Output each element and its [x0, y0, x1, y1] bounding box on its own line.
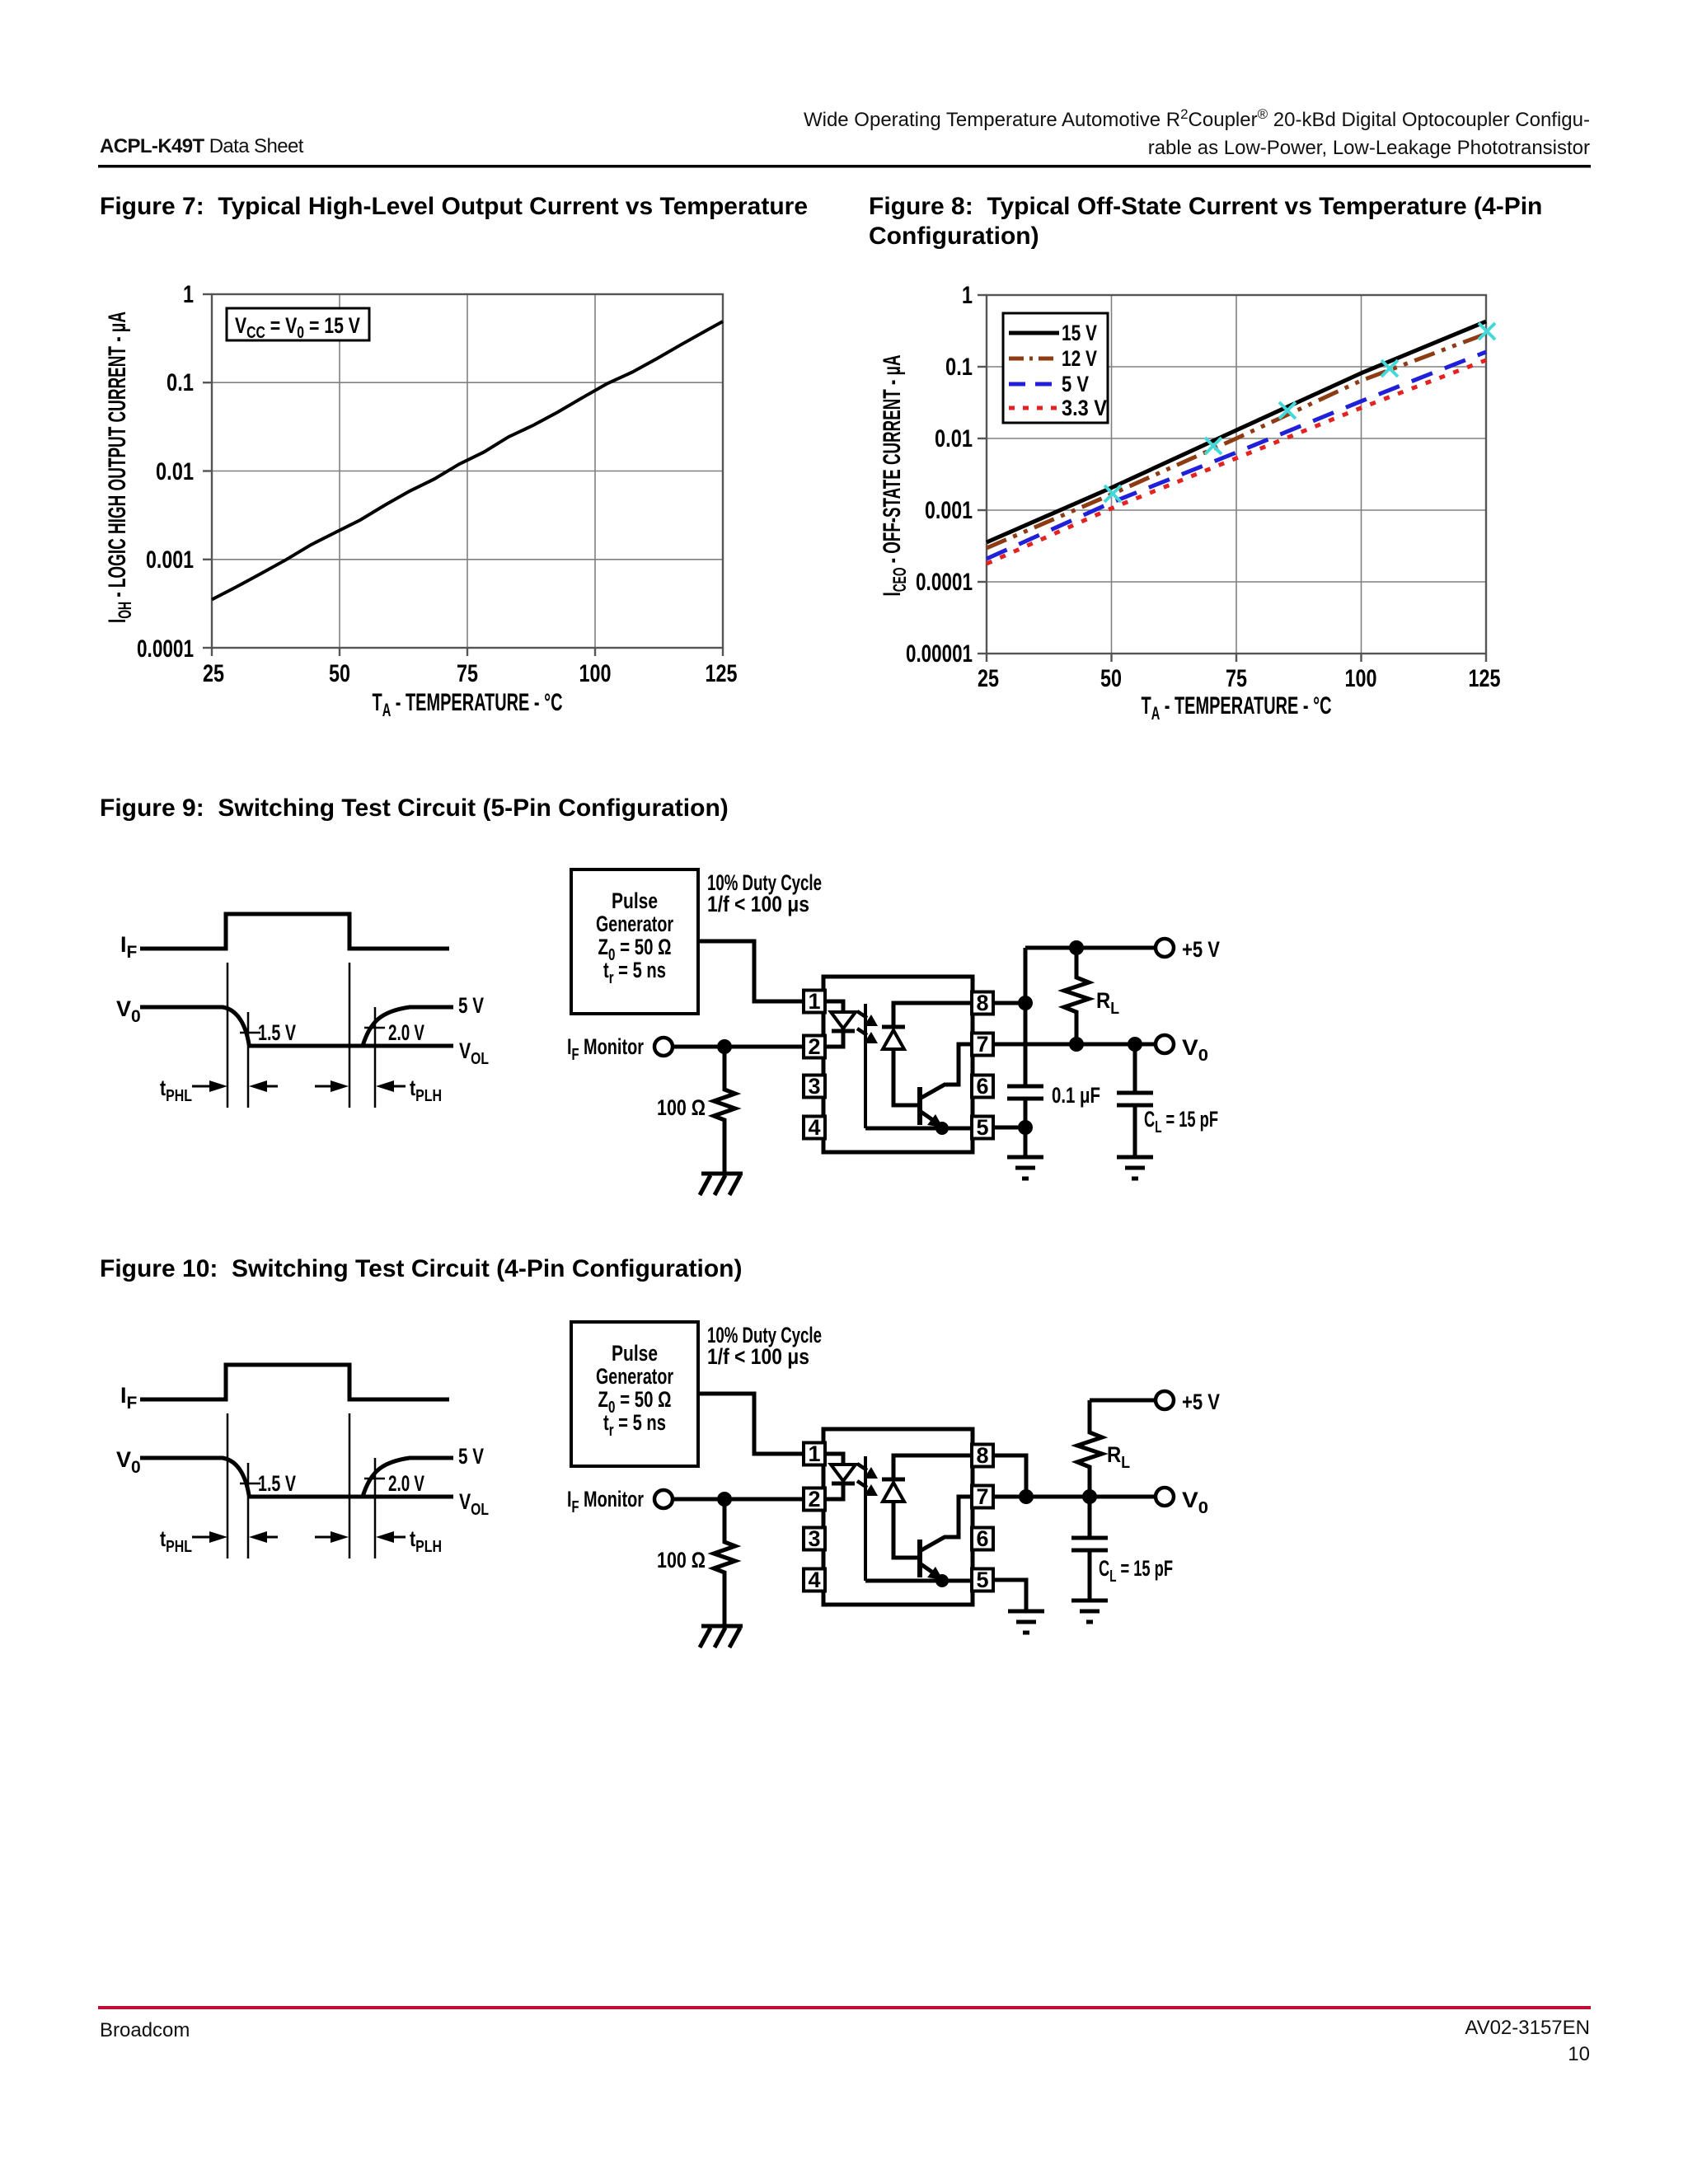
svg-text:12 V: 12 V [1062, 346, 1097, 371]
svg-text:50: 50 [1100, 665, 1122, 692]
timing reference line at 1.5V crossing [247, 1463, 250, 1558]
svg-text:50: 50 [329, 660, 350, 687]
wire pin 1 to LED anode [825, 1454, 843, 1465]
terminal IF Monitor [567, 1487, 673, 1516]
FIG9 [116, 869, 1220, 1195]
ground (hatched) [700, 1626, 743, 1647]
tPLH label [410, 1526, 442, 1556]
2.0 V threshold tick and label [364, 1471, 424, 1496]
svg-text:Generator: Generator [596, 912, 673, 936]
ground (hatched) [700, 1174, 743, 1195]
svg-text:0.00001: 0.00001 [906, 640, 973, 668]
annotation box [227, 308, 369, 340]
svg-text:AV02-3157EN: AV02-3157EN [1465, 2017, 1590, 2039]
svg-text:0.001: 0.001 [146, 546, 194, 574]
junction node pin 5 ground [1018, 1120, 1033, 1135]
svg-text:25: 25 [978, 665, 999, 692]
5 V level label [458, 1444, 484, 1469]
svg-text:6: 6 [976, 1074, 988, 1099]
photodiode D2 [882, 1479, 905, 1502]
5 V level label [458, 993, 484, 1018]
FIG10 [116, 1322, 1220, 1647]
svg-text:1: 1 [183, 281, 194, 308]
capacitor CL [1071, 1497, 1173, 1601]
plot border [212, 294, 723, 648]
resistor 100 Ω [657, 1499, 735, 1626]
wire LED cathode to pin 2 [825, 1031, 843, 1047]
plot border [987, 295, 1486, 654]
junction node pin 8 rail [1018, 996, 1033, 1010]
svg-text:3: 3 [808, 1074, 820, 1099]
svg-text:0.01: 0.01 [156, 458, 194, 485]
svg-text:ACPL-K49T Data Sheet: ACPL-K49T Data Sheet [100, 135, 304, 157]
tPHL arrows [192, 1531, 278, 1543]
wire emitter and shield to pin 5 [865, 1127, 972, 1131]
wire pulse generator to pin 1 [698, 1394, 804, 1454]
svg-text:6: 6 [976, 1526, 988, 1551]
signal IF label [120, 1383, 138, 1413]
svg-text:75: 75 [1226, 665, 1247, 692]
svg-text:3.3 V: 3.3 V [1062, 396, 1107, 420]
svg-text:7: 7 [976, 1032, 988, 1057]
wire pin 5 to ground [993, 1580, 1026, 1610]
legend [1003, 313, 1108, 423]
svg-text:Figure 9: Switching Test Circ: Figure 9: Switching Test Circuit (5-Pin … [100, 794, 729, 822]
internal shield [864, 1456, 867, 1581]
terminal IF Monitor [567, 1034, 673, 1064]
svg-text:100: 100 [579, 660, 612, 687]
pin 2 [804, 1034, 825, 1059]
wire photodiode anode to transistor base [893, 1502, 917, 1558]
svg-text:0.0001: 0.0001 [916, 569, 973, 596]
wire LED cathode to pin 2 [825, 1483, 843, 1499]
junction node at RL top [1069, 940, 1084, 955]
light emission arrows [857, 1464, 878, 1496]
pin 3 [804, 1526, 825, 1551]
photodiode D2 [882, 1027, 905, 1049]
svg-text:Pulse: Pulse [612, 888, 658, 913]
wire pulse generator to pin 1 [698, 941, 804, 1001]
x labels [978, 665, 1501, 692]
svg-text:ICEO - OFF-STATE CURRENT - μA: ICEO - OFF-STATE CURRENT - μA [879, 355, 910, 597]
svg-text:0.01: 0.01 [935, 425, 973, 452]
wire pin 7 to VO terminal [993, 1495, 1156, 1499]
wire +5V rail [1090, 1399, 1156, 1403]
svg-text:5: 5 [976, 1115, 988, 1140]
wire pin 8 down to output node [993, 1455, 1026, 1497]
ground [1117, 1157, 1153, 1179]
VO waveform rising edge to 5V [363, 1007, 453, 1046]
resistor RL [1077, 1400, 1130, 1497]
ticks [978, 295, 1486, 662]
ticks [203, 294, 723, 656]
svg-text:5 V: 5 V [1062, 372, 1089, 396]
emitter junction node [935, 1122, 949, 1135]
svg-text:1.5 V: 1.5 V [258, 1471, 296, 1496]
wire +5V vertical rail [1024, 948, 1028, 1086]
pin 7 [972, 1484, 993, 1509]
resistor RL [1064, 948, 1119, 1044]
ground [1071, 1601, 1108, 1622]
pin 6 [972, 1526, 993, 1551]
svg-text:7: 7 [976, 1484, 988, 1509]
svg-text:4: 4 [808, 1115, 820, 1140]
wire photodiode cathode to pin 8 [893, 1003, 972, 1029]
pulse generator PG2 [571, 1322, 698, 1466]
svg-text:100: 100 [1345, 665, 1377, 692]
FIG8 [879, 282, 1501, 724]
resistor 100 Ω [657, 1047, 735, 1174]
optocoupler U2 [823, 1429, 973, 1605]
svg-text:25: 25 [203, 660, 224, 687]
junction node pin 8 to output [1019, 1489, 1034, 1504]
timing reference line at 2.0V crossing [374, 1007, 377, 1108]
svg-text:1/f < 100 μs: 1/f < 100 μs [707, 1344, 809, 1369]
capacitor CL [1117, 1044, 1218, 1157]
tPLH arrows [315, 1080, 406, 1092]
grid [212, 294, 723, 648]
2.0 V threshold tick and label [364, 1020, 424, 1045]
junction node at RL bottom [1082, 1489, 1097, 1504]
pin 3 [804, 1074, 825, 1099]
signal IF label [120, 932, 138, 962]
pin 4 [804, 1568, 825, 1592]
pin 8 [972, 991, 993, 1015]
signal VO label [116, 996, 141, 1026]
IF waveform trace [140, 1365, 449, 1399]
optocoupler U1 [823, 977, 973, 1152]
svg-text:0.1: 0.1 [945, 354, 973, 381]
grid [987, 295, 1486, 654]
timing reference line at 1.5V crossing [247, 1012, 250, 1108]
svg-text:0.0001: 0.0001 [137, 635, 194, 663]
timing reference line at IF rise [227, 963, 229, 1108]
wire photodiode anode to transistor base [893, 1049, 917, 1105]
svg-text:2.0 V: 2.0 V [388, 1471, 424, 1496]
svg-text:Generator: Generator [596, 1364, 673, 1389]
wire IF monitor to pin 2 [673, 1045, 804, 1049]
svg-text:2: 2 [808, 1487, 820, 1511]
FOOTER [98, 2006, 1591, 2065]
duty cycle note label [707, 1323, 822, 1369]
svg-text:5 V: 5 V [458, 993, 484, 1018]
svg-text:+5 V: +5 V [1182, 937, 1220, 962]
transistor Q2 [920, 1537, 945, 1580]
curve [212, 321, 723, 600]
wire pin 8 to supply rail [993, 1001, 1025, 1005]
1.5 V threshold tick and label [240, 1471, 296, 1496]
svg-text:75: 75 [457, 660, 478, 687]
tPHL label [160, 1076, 192, 1105]
svg-text:TA - TEMPERATURE - °C: TA - TEMPERATURE - °C [1142, 692, 1332, 724]
tPLH arrows [315, 1531, 406, 1543]
svg-text:Pulse: Pulse [612, 1341, 658, 1366]
VOL level label [459, 1489, 489, 1519]
svg-text:1: 1 [962, 282, 973, 309]
svg-text:1/f < 100 μs: 1/f < 100 μs [707, 892, 809, 916]
svg-text:2: 2 [808, 1034, 820, 1059]
tPHL arrows [192, 1080, 278, 1092]
pin 2 [804, 1487, 825, 1511]
VOL level label [459, 1038, 489, 1068]
junction node on IF monitor wire [717, 1039, 732, 1054]
svg-text:Wide Operating Temperature Aut: Wide Operating Temperature Automotive R2… [804, 106, 1590, 131]
junction node on IF monitor wire [717, 1492, 732, 1507]
svg-text:1: 1 [808, 989, 820, 1014]
ground [1007, 1157, 1043, 1179]
tPHL label [160, 1526, 192, 1556]
HEADER [98, 106, 1591, 1282]
wire pin 1 to LED anode [825, 1001, 843, 1012]
junction node at CL top [1128, 1037, 1142, 1052]
svg-text:0.001: 0.001 [925, 497, 973, 524]
svg-text:Broadcom: Broadcom [100, 2019, 190, 2041]
duty cycle note label [707, 870, 822, 916]
x labels [203, 660, 738, 687]
svg-text:5 V: 5 V [458, 1444, 484, 1469]
cyan markers [1104, 323, 1495, 502]
wire pin 7 to VO terminal [993, 1043, 1156, 1047]
pin 1 [804, 1441, 825, 1466]
terminal VO [1156, 1035, 1208, 1065]
emitter junction node [935, 1574, 949, 1587]
svg-text:TA - TEMPERATURE - °C: TA - TEMPERATURE - °C [373, 689, 563, 720]
svg-text:4: 4 [808, 1568, 820, 1592]
wire collector to pin 7 [944, 1044, 972, 1085]
timing reference line at IF fall [349, 1413, 351, 1558]
svg-text:8: 8 [976, 1443, 988, 1468]
svg-text:rable as Low-Power, Low-Leakag: rable as Low-Power, Low-Leakage Phototra… [1148, 137, 1590, 159]
svg-text:125: 125 [706, 660, 738, 687]
y labels [906, 282, 973, 668]
svg-text:125: 125 [1469, 665, 1501, 692]
svg-text:Figure 10: Switching Test Cir: Figure 10: Switching Test Circuit (4-Pin… [100, 1255, 742, 1282]
wire capacitor to ground [1024, 1099, 1028, 1157]
svg-text:Figure 8: Typical Off-State C: Figure 8: Typical Off-State Current vs T… [869, 193, 1542, 220]
svg-text:3: 3 [808, 1526, 820, 1551]
svg-text:2.0 V: 2.0 V [388, 1020, 424, 1045]
junction node at RL bottom [1069, 1037, 1084, 1052]
pin 7 [972, 1032, 993, 1057]
IF waveform trace [140, 914, 449, 949]
svg-text:5: 5 [976, 1568, 988, 1592]
VO waveform trace falling to VOL [140, 1458, 453, 1497]
terminal +5 V [1156, 1390, 1220, 1414]
wire +5V top rail [1025, 946, 1156, 950]
signal VO label [116, 1447, 141, 1477]
svg-text:Configuration): Configuration) [869, 223, 1039, 250]
FIG7 [104, 281, 738, 720]
svg-text:100 Ω: 100 Ω [657, 1548, 706, 1572]
svg-text:0.1 μF: 0.1 μF [1052, 1083, 1100, 1108]
svg-text:1: 1 [808, 1441, 820, 1466]
svg-text:8: 8 [976, 991, 988, 1015]
wire IF monitor to pin 2 [673, 1497, 804, 1502]
wire collector to pin 7 [944, 1497, 972, 1537]
wire emitter and shield to pin 5 [865, 1579, 972, 1583]
curves [987, 321, 1486, 542]
1.5 V threshold tick and label [240, 1020, 296, 1045]
wire pin 5 to ground rail [993, 1126, 1025, 1130]
pin 5 [972, 1568, 993, 1592]
LED D1 [831, 1012, 856, 1031]
tPLH label [410, 1076, 442, 1105]
ground [1008, 1611, 1044, 1633]
pin 6 [972, 1074, 993, 1099]
LED D1 [831, 1465, 856, 1483]
svg-text:1.5 V: 1.5 V [258, 1020, 296, 1045]
svg-text:15 V: 15 V [1062, 321, 1097, 345]
svg-text:+5 V: +5 V [1182, 1390, 1220, 1414]
VO waveform trace falling to VOL [140, 1007, 453, 1046]
internal shield [864, 1004, 867, 1128]
VO waveform rising edge to 5V [363, 1458, 453, 1497]
capacitor 0.1 µF [1007, 1083, 1100, 1108]
timing reference line at IF fall [349, 963, 351, 1108]
pin 5 [972, 1115, 993, 1140]
pin 4 [804, 1115, 825, 1140]
light emission arrows [857, 1011, 878, 1043]
svg-text:IOH - LOGIC HIGH OUTPUT CURREN: IOH - LOGIC HIGH OUTPUT CURRENT - μA [104, 312, 135, 623]
terminal +5 V [1156, 937, 1220, 962]
svg-text:Figure 7: Typical High-Level: Figure 7: Typical High-Level Output Curr… [100, 193, 808, 220]
terminal VO [1156, 1488, 1208, 1517]
timing reference line at 2.0V crossing [374, 1458, 377, 1558]
transistor Q1 [920, 1085, 945, 1127]
y labels [137, 281, 194, 663]
pin 8 [972, 1443, 993, 1468]
wire photodiode cathode to pin 8 [893, 1455, 972, 1481]
svg-text:0.1: 0.1 [166, 369, 194, 396]
pulse generator PG1 [571, 869, 698, 1014]
svg-text:10: 10 [1568, 2043, 1590, 2065]
timing reference line at IF rise [227, 1413, 229, 1558]
pin 1 [804, 989, 825, 1014]
svg-text:100 Ω: 100 Ω [657, 1095, 706, 1120]
